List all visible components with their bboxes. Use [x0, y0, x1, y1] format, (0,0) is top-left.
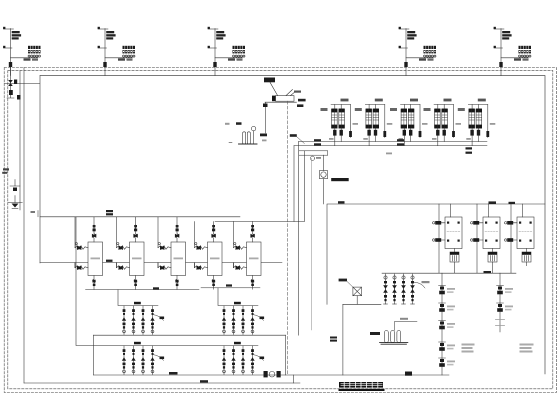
label tank [370, 332, 380, 335]
note text block 2 [520, 344, 534, 353]
wire: bottom return main [94, 374, 450, 376]
wire: left branch line [4, 83, 40, 85]
label bypass [316, 157, 321, 159]
wire: FCU header CD [76, 217, 258, 346]
riser R3 [208, 27, 245, 76]
pump P2 [355, 99, 393, 146]
label water treatment [339, 279, 347, 282]
wire: pump discharge main 2 [294, 145, 487, 147]
pump P1 [321, 99, 359, 146]
wire: main jog [293, 375, 295, 383]
wire: AHU top main 1 [40, 216, 240, 218]
ticks on riser right 2 [496, 320, 505, 326]
wire: left main riser B [23, 68, 25, 384]
wire: left main riser A [19, 71, 21, 210]
wire: AHU bottom collector 1 [86, 289, 200, 291]
riser R4 [399, 27, 436, 76]
heat exchanger HX1 [433, 204, 463, 273]
riser R1 [3, 27, 40, 76]
pump P6 on bottom main [264, 371, 281, 377]
AHU AH4 [195, 225, 223, 289]
wire: FCU header B [218, 288, 258, 306]
wire: AHU bottom collector 2 [201, 287, 260, 289]
wire: group E header [382, 272, 516, 274]
label bottom main [169, 372, 208, 383]
makeup tank [229, 126, 257, 144]
wire: bundle riser 4 [310, 158, 312, 330]
wire: outer dashed border [4, 68, 556, 393]
riser R5 [494, 27, 531, 76]
label pump mains [290, 134, 472, 154]
wire: FCU return main 1 [94, 334, 286, 336]
wire: FCU header A [118, 290, 158, 306]
valve cluster 3 on right riser [439, 321, 456, 330]
label makeup tank [236, 122, 242, 125]
FCU group D [222, 342, 264, 375]
wire: bypass drop [327, 151, 329, 155]
wire: AHU top stubs row1 [94, 217, 177, 229]
wire: pump discharge main 1 [299, 141, 487, 143]
label expansion tank [294, 91, 306, 108]
wire: AHU top stubs row2 [214, 222, 253, 229]
wire: FCU left riser [93, 335, 95, 375]
wire: tank overflow [395, 321, 418, 330]
note text block 1 [462, 344, 475, 353]
wire: bundle riser 2 [298, 142, 300, 336]
valve block on bottom main [405, 372, 412, 376]
tick on AHU main start [37, 211, 39, 217]
valve below tank line [263, 104, 268, 108]
wire: inner dashed border [8, 71, 553, 389]
wire: AHU return main [40, 262, 282, 264]
label small gray [386, 153, 392, 155]
valve blocks left top [14, 80, 17, 85]
FCU group E [383, 274, 429, 304]
AHU AH2 [117, 225, 145, 289]
AHU AH5 [234, 225, 262, 289]
FCU group A [122, 302, 164, 335]
softened water tank [380, 331, 408, 345]
wire: FCU right riser [285, 335, 287, 375]
wire: expansion dashed drop [287, 101, 289, 375]
wire: bypass main 1 [299, 150, 328, 152]
wire: riser R1 continuation [7, 67, 14, 98]
FCU group B [222, 302, 264, 335]
valve cluster left of tank [330, 337, 337, 342]
riser right 1 [441, 273, 443, 375]
wire: leader water treatment [347, 281, 353, 287]
label pressurization unit [331, 178, 349, 181]
wire: left supply drop [39, 76, 41, 263]
expansion tank T1 [264, 78, 297, 103]
wire: AHU top main 2 [215, 221, 304, 223]
valve cluster 1 on right riser [439, 286, 456, 295]
valve cluster 5 on right riser [439, 358, 456, 367]
title underline [339, 389, 385, 391]
title text [339, 382, 383, 388]
valve cluster 1 on riser 2 [497, 286, 514, 295]
wire: bundle riser 1 [293, 146, 295, 222]
riser right 2 [499, 273, 501, 332]
pump P3 [390, 99, 428, 146]
wire: leader [297, 137, 305, 144]
label AHU return [106, 260, 113, 262]
heat exchanger HX2 [471, 204, 501, 273]
label AHU main [106, 210, 113, 215]
AHU AH1 [75, 225, 103, 289]
wire: bypass main 2 [299, 154, 328, 156]
wire: bundle riser 3 [303, 151, 305, 222]
wire: HX supply main [327, 204, 545, 304]
pressurization unit [320, 155, 328, 204]
riser R2 [98, 27, 135, 76]
valve V1 on riser R1 [8, 80, 13, 95]
wire: AHU left drops [75, 217, 234, 248]
AHU AH3 [158, 225, 186, 289]
label HX main [338, 201, 515, 204]
FCU group C [122, 342, 164, 375]
pump P5 [458, 99, 496, 146]
vent fitting A1 [10, 180, 20, 192]
label left riser text [2, 168, 9, 174]
valve cluster 4 on right riser [439, 342, 456, 351]
label group E header [484, 271, 492, 274]
vent fitting A2 [8, 196, 22, 209]
heat exchanger HX3 [505, 204, 535, 273]
valve cluster 2 on riser 2 [497, 303, 514, 312]
wire: bottom main [24, 382, 300, 384]
wire: makeup vertical [265, 102, 267, 133]
valve cluster 2 on right riser [439, 303, 456, 312]
pump P4 [424, 99, 462, 146]
pump bypass circle [310, 156, 314, 160]
wire: supply main top [40, 76, 545, 374]
water treatment unit W1 [343, 287, 381, 375]
